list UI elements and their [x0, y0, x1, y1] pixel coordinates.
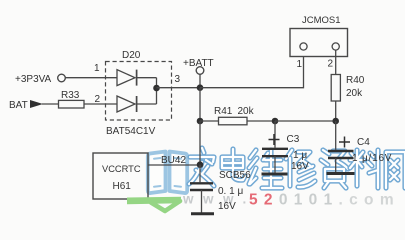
ground SCB56 — [191, 212, 214, 215]
svg-text:SCB56: SCB56 — [219, 170, 251, 181]
net label BU42 — [161, 155, 186, 166]
svg-text:16V: 16V — [218, 201, 236, 212]
wire JCMOS1 pin 2 to R40 — [335, 50, 337, 75]
pin 1 label D20 — [94, 63, 100, 74]
wire C3 to ground — [274, 156, 276, 172]
wire BU42 node to capacitor — [199, 165, 201, 183]
junction BU42 node — [197, 161, 204, 168]
svg-text:BAT54C1V: BAT54C1V — [106, 126, 156, 137]
wire C3 node to C3 — [274, 121, 276, 148]
value 0.1u — [218, 186, 243, 197]
terminal +3P3VA — [58, 74, 66, 82]
watermark logo open book — [148, 152, 187, 194]
watermark char xiu — [286, 150, 315, 187]
wire +BATT node to JCMOS1 pin 1 — [200, 50, 304, 88]
svg-text:R33: R33 — [61, 90, 80, 101]
svg-text:BAT: BAT — [9, 100, 28, 111]
svg-text:16V: 16V — [291, 161, 309, 172]
capacitor C3 — [262, 149, 288, 156]
R40 value 20k — [346, 88, 363, 99]
capacitor C4 — [328, 151, 354, 158]
watermark char liao — [350, 150, 378, 188]
R33 label — [61, 90, 80, 101]
BAT54C1V label — [106, 126, 156, 137]
svg-text:BU42: BU42 — [161, 155, 186, 166]
svg-text:1 μ/16V: 1 μ/16V — [352, 153, 392, 164]
junction C3 node — [272, 118, 279, 125]
svg-text:D20: D20 — [122, 50, 141, 61]
svg-text:VCCRTC: VCCRTC — [102, 164, 141, 174]
R41 value 20k — [238, 106, 255, 117]
C4 label — [357, 137, 370, 148]
BAT input arrow — [30, 100, 43, 108]
watermark char zi — [321, 150, 348, 188]
junction +BATT node — [197, 84, 204, 91]
D20 dashed package outline — [106, 62, 172, 121]
C4 value — [352, 153, 392, 164]
wire +BATT terminal to node — [199, 75, 201, 88]
pin 3 label D20 — [175, 74, 181, 85]
svg-text:20k: 20k — [346, 88, 363, 99]
svg-text:R40: R40 — [346, 75, 365, 86]
wire R41 to C3 node — [247, 120, 275, 122]
terminal +BATT — [196, 67, 204, 75]
svg-text:JCMOS1: JCMOS1 — [302, 15, 341, 26]
wire node to R41 — [200, 120, 219, 122]
resistor R40 — [331, 75, 340, 102]
wire C3 node to C4 node — [275, 120, 336, 122]
watermark char wei — [249, 150, 282, 188]
C4 polarity + — [339, 137, 350, 148]
svg-text:+3P3VA: +3P3VA — [15, 74, 52, 85]
JCMOS1 label — [302, 15, 341, 26]
watermark char jia — [189, 148, 214, 186]
C3 value — [291, 150, 309, 172]
C3 label — [287, 134, 300, 145]
pin 2 label D20 — [95, 94, 101, 105]
resistor R41 — [219, 117, 248, 125]
wire R33 to D20 pin 2 — [84, 103, 117, 105]
connector JCMOS1 — [290, 29, 348, 57]
junction D20 common cathode — [153, 85, 160, 92]
svg-text:0. 1 μ: 0. 1 μ — [218, 186, 243, 197]
wire VCCRTC to BU42 node — [148, 164, 200, 166]
diode D20a (top) — [117, 70, 157, 86]
diode D20b (bottom) — [117, 96, 157, 112]
svg-text:1 μ: 1 μ — [293, 150, 307, 161]
C3 polarity + — [269, 134, 280, 145]
svg-text:2: 2 — [95, 94, 101, 105]
R41 label — [214, 106, 233, 117]
resistor R33 — [59, 100, 85, 108]
net label +BATT — [183, 58, 214, 69]
watermark char dian — [222, 149, 245, 180]
svg-text:C3: C3 — [287, 134, 300, 145]
wire BAT arrow to R33 — [42, 103, 59, 105]
D20 label — [122, 50, 141, 61]
svg-text:R41: R41 — [214, 106, 233, 117]
wire C4 to ground — [335, 158, 337, 172]
wire C4 node to C4 — [335, 121, 337, 150]
wire D20 common cathode — [156, 78, 158, 104]
svg-text:1: 1 — [297, 59, 303, 70]
net label BAT — [9, 100, 28, 111]
svg-text:2: 2 — [328, 59, 334, 70]
svg-text:C4: C4 — [357, 137, 370, 148]
IC VCCRTC H61 — [93, 153, 148, 199]
junction R41 node — [197, 118, 204, 125]
watermark char wang — [386, 152, 405, 188]
svg-text:3: 3 — [175, 74, 181, 85]
SCB56 label — [219, 170, 251, 181]
R40 label — [346, 75, 365, 86]
wire R41 node down to BU42 node — [199, 121, 201, 165]
junction C4 node — [332, 118, 339, 125]
ground C3 — [262, 173, 288, 176]
wire capacitor to ground — [201, 190, 203, 213]
svg-text:H61: H61 — [113, 181, 132, 192]
wire +3P3VA to D20 pin 1 — [66, 77, 118, 79]
capacitor SCB56 0.1u — [190, 183, 213, 190]
svg-text:20k: 20k — [238, 106, 255, 117]
JCMOS1 pin 2 label — [328, 59, 334, 70]
ground C4 — [327, 172, 355, 175]
svg-text:1: 1 — [94, 63, 100, 74]
JCMOS1 pin 1 label — [297, 59, 303, 70]
wire +BATT node down to R41 node — [199, 88, 201, 121]
wire R40 to node — [335, 101, 337, 121]
wire D20 pin 3 to +BATT node — [157, 87, 201, 89]
svg-text:520101.com: 520101.com — [249, 191, 400, 208]
value 16V — [218, 201, 236, 212]
net label +3P3VA — [15, 74, 52, 85]
watermark green ribbon — [127, 197, 181, 211]
